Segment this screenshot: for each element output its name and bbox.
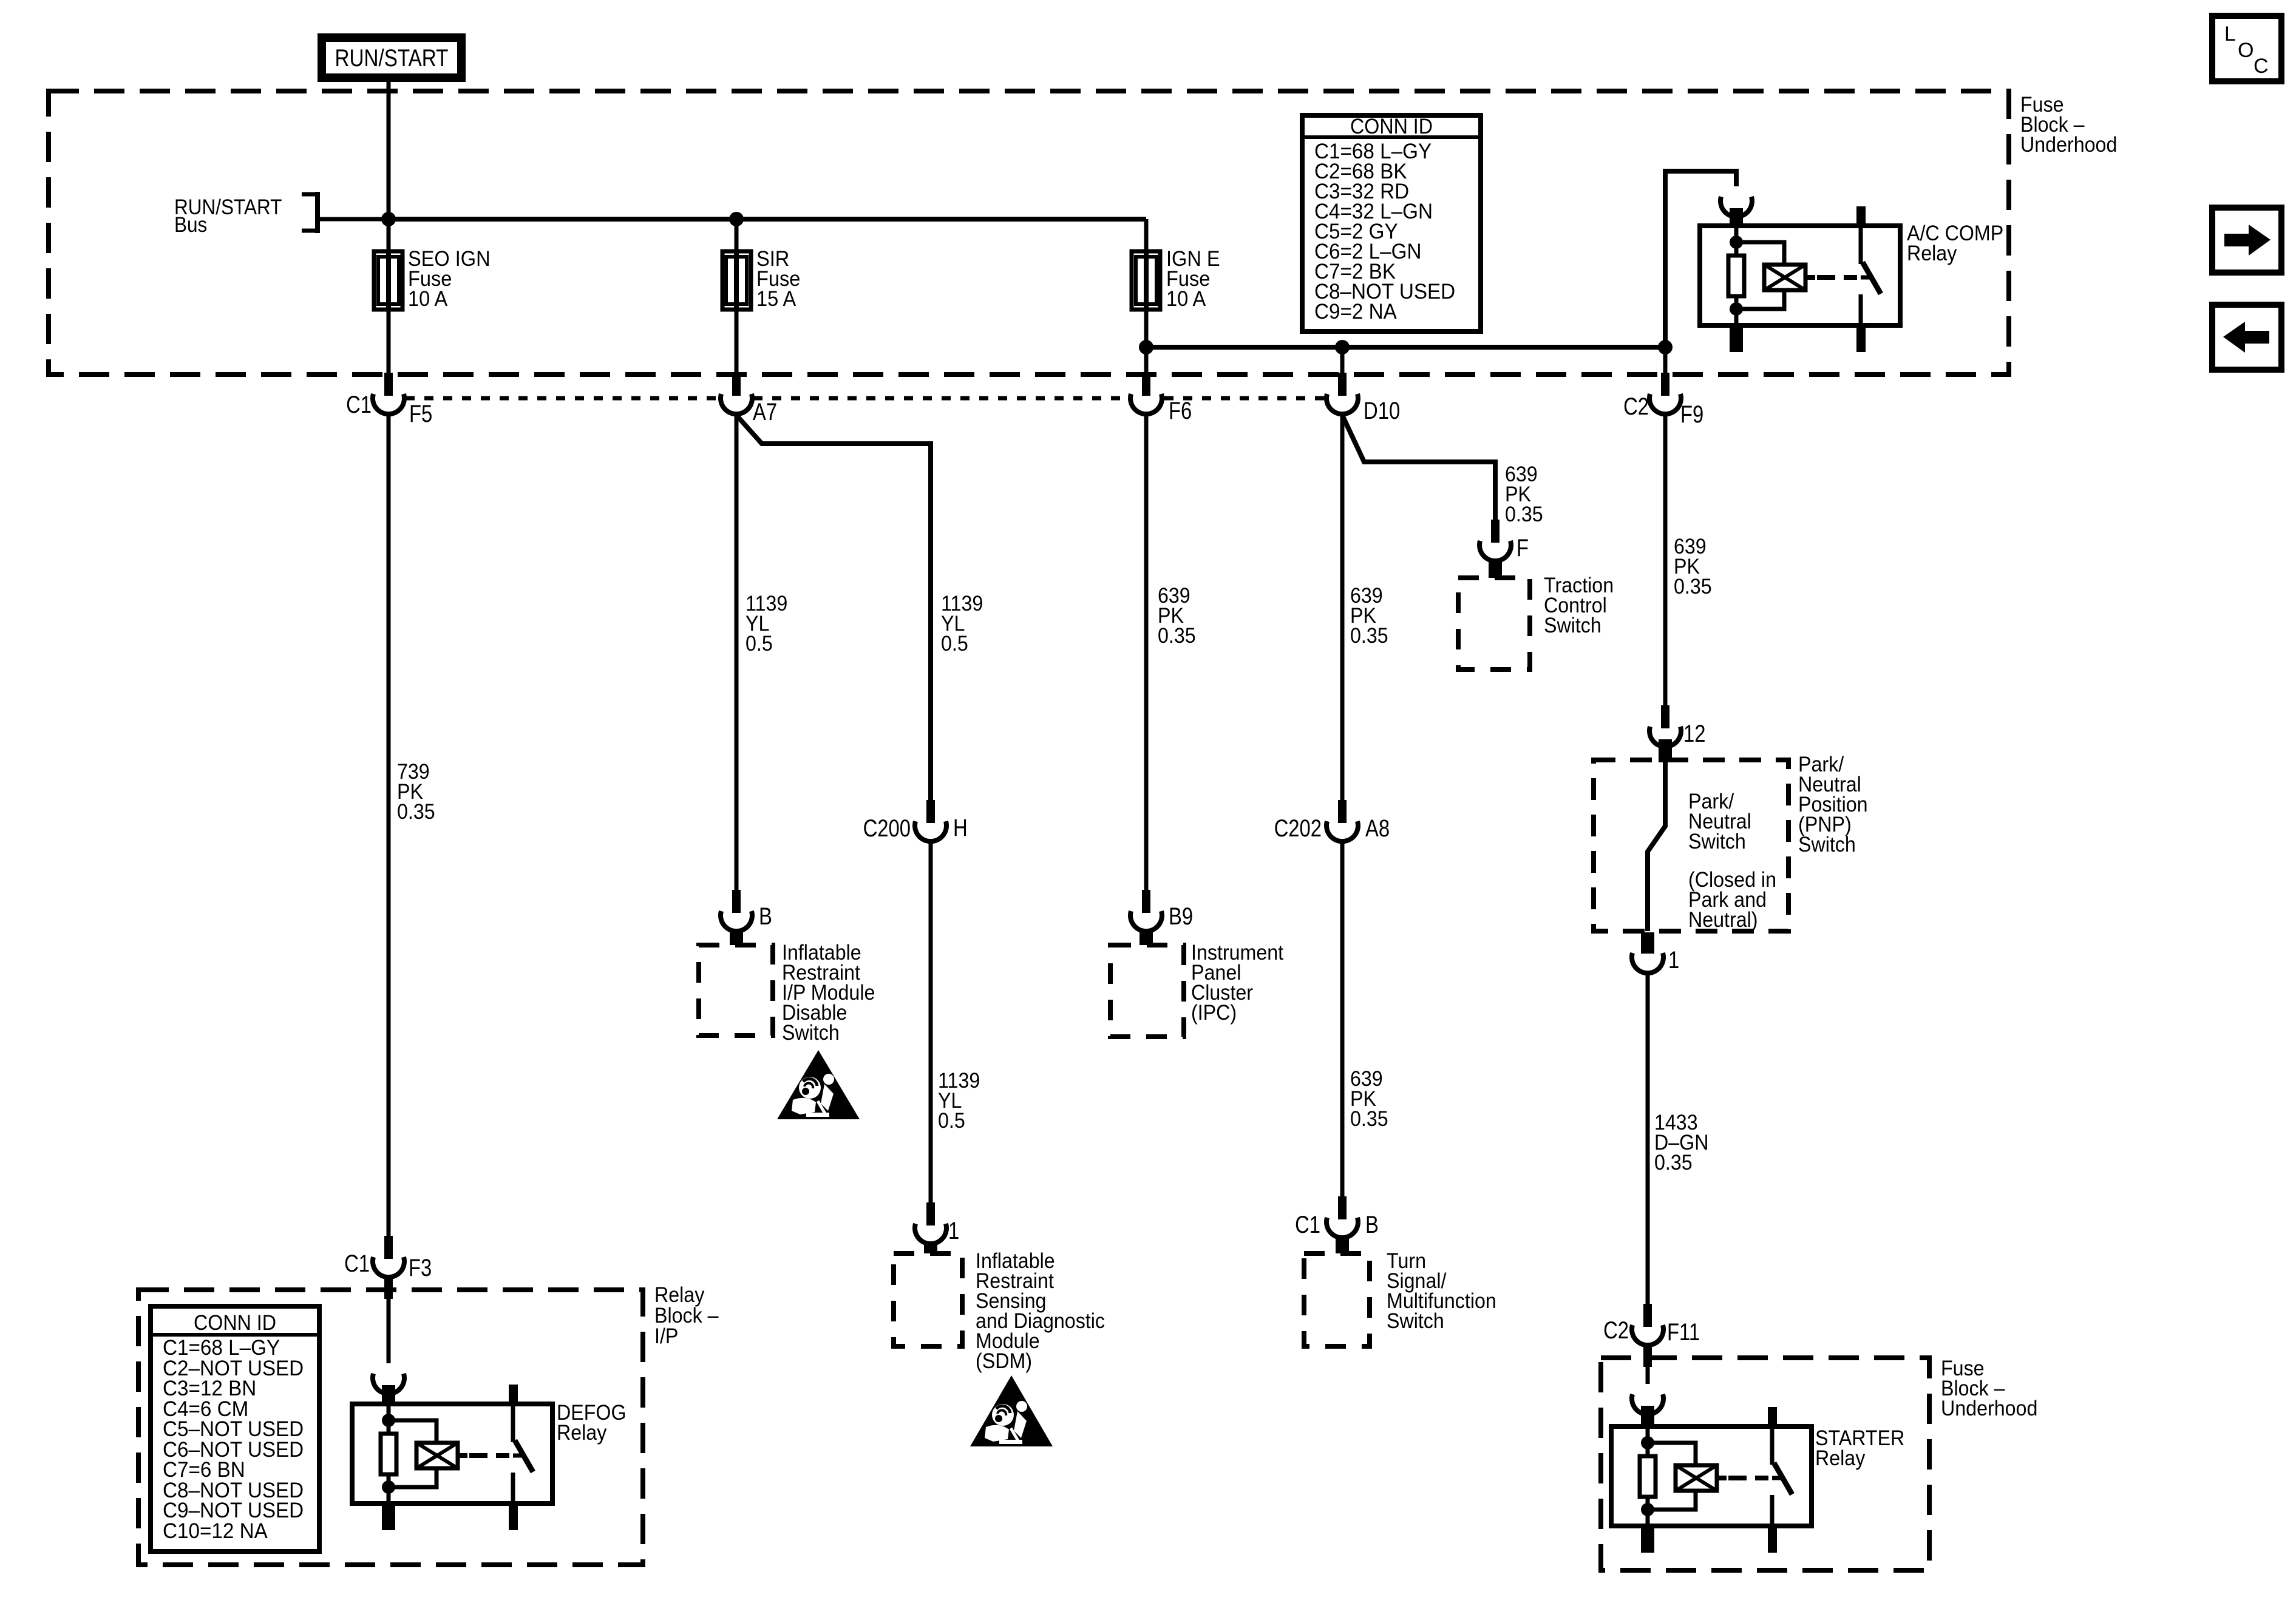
svg-text:Switch: Switch [1387,1309,1444,1333]
svg-text:C1: C1 [346,392,372,418]
svg-text:0.35: 0.35 [1505,503,1543,526]
svg-text:CONN ID: CONN ID [194,1311,276,1335]
svg-text:1: 1 [1668,947,1679,974]
svg-text:Underhood: Underhood [1941,1397,2037,1420]
svg-text:12: 12 [1683,720,1706,747]
svg-text:B: B [1365,1212,1379,1238]
svg-text:0.5: 0.5 [746,632,773,656]
svg-text:F9: F9 [1680,401,1703,428]
svg-text:D10: D10 [1364,398,1400,424]
svg-text:0.35: 0.35 [397,800,435,824]
svg-text:H: H [953,815,968,841]
svg-text:C2: C2 [1623,393,1649,420]
svg-text:0.35: 0.35 [1350,1107,1388,1131]
svg-text:Underhood: Underhood [2020,133,2117,157]
svg-text:Bus: Bus [174,213,207,237]
svg-text:Switch: Switch [1688,830,1746,853]
svg-text:Relay: Relay [1815,1446,1866,1470]
svg-text:1: 1 [948,1218,959,1244]
svg-text:C9=2 NA: C9=2 NA [1314,300,1397,324]
svg-text:F11: F11 [1667,1319,1700,1346]
svg-text:C2: C2 [1603,1317,1629,1344]
svg-text:CONN ID: CONN ID [1350,115,1433,138]
svg-text:Switch: Switch [1798,833,1856,856]
svg-text:Switch: Switch [1544,614,1601,637]
svg-text:O: O [2238,39,2254,62]
svg-text:C1: C1 [1295,1212,1320,1238]
svg-text:0.35: 0.35 [1654,1151,1693,1175]
svg-text:(IPC): (IPC) [1191,1001,1237,1025]
svg-text:RUN/START: RUN/START [335,45,449,72]
svg-text:B: B [759,903,772,930]
svg-text:(SDM): (SDM) [976,1349,1032,1373]
svg-text:I/P: I/P [654,1324,678,1348]
svg-text:F: F [1517,535,1529,561]
svg-text:10 A: 10 A [1166,287,1206,311]
svg-text:B9: B9 [1169,903,1193,930]
svg-text:Relay: Relay [1907,242,1957,265]
svg-text:C202: C202 [1274,815,1322,842]
svg-text:A7: A7 [753,399,777,425]
svg-text:C1: C1 [344,1250,370,1277]
svg-text:Neutral): Neutral) [1688,908,1758,932]
svg-text:0.5: 0.5 [938,1109,965,1133]
svg-text:C200: C200 [863,815,911,842]
svg-text:C: C [2254,55,2269,78]
svg-text:F6: F6 [1169,398,1192,424]
svg-text:0.35: 0.35 [1350,624,1388,648]
svg-text:15 A: 15 A [756,287,796,311]
svg-text:F5: F5 [409,401,432,427]
svg-text:0.5: 0.5 [941,632,968,656]
svg-text:L: L [2224,22,2236,46]
svg-text:Relay: Relay [557,1421,607,1445]
svg-text:0.35: 0.35 [1158,624,1196,648]
svg-text:Switch: Switch [782,1021,840,1045]
svg-text:F3: F3 [409,1255,432,1281]
svg-text:0.35: 0.35 [1674,575,1712,598]
svg-text:10 A: 10 A [408,287,448,311]
svg-text:C10=12 NA: C10=12 NA [163,1519,268,1543]
svg-text:A8: A8 [1365,815,1390,842]
